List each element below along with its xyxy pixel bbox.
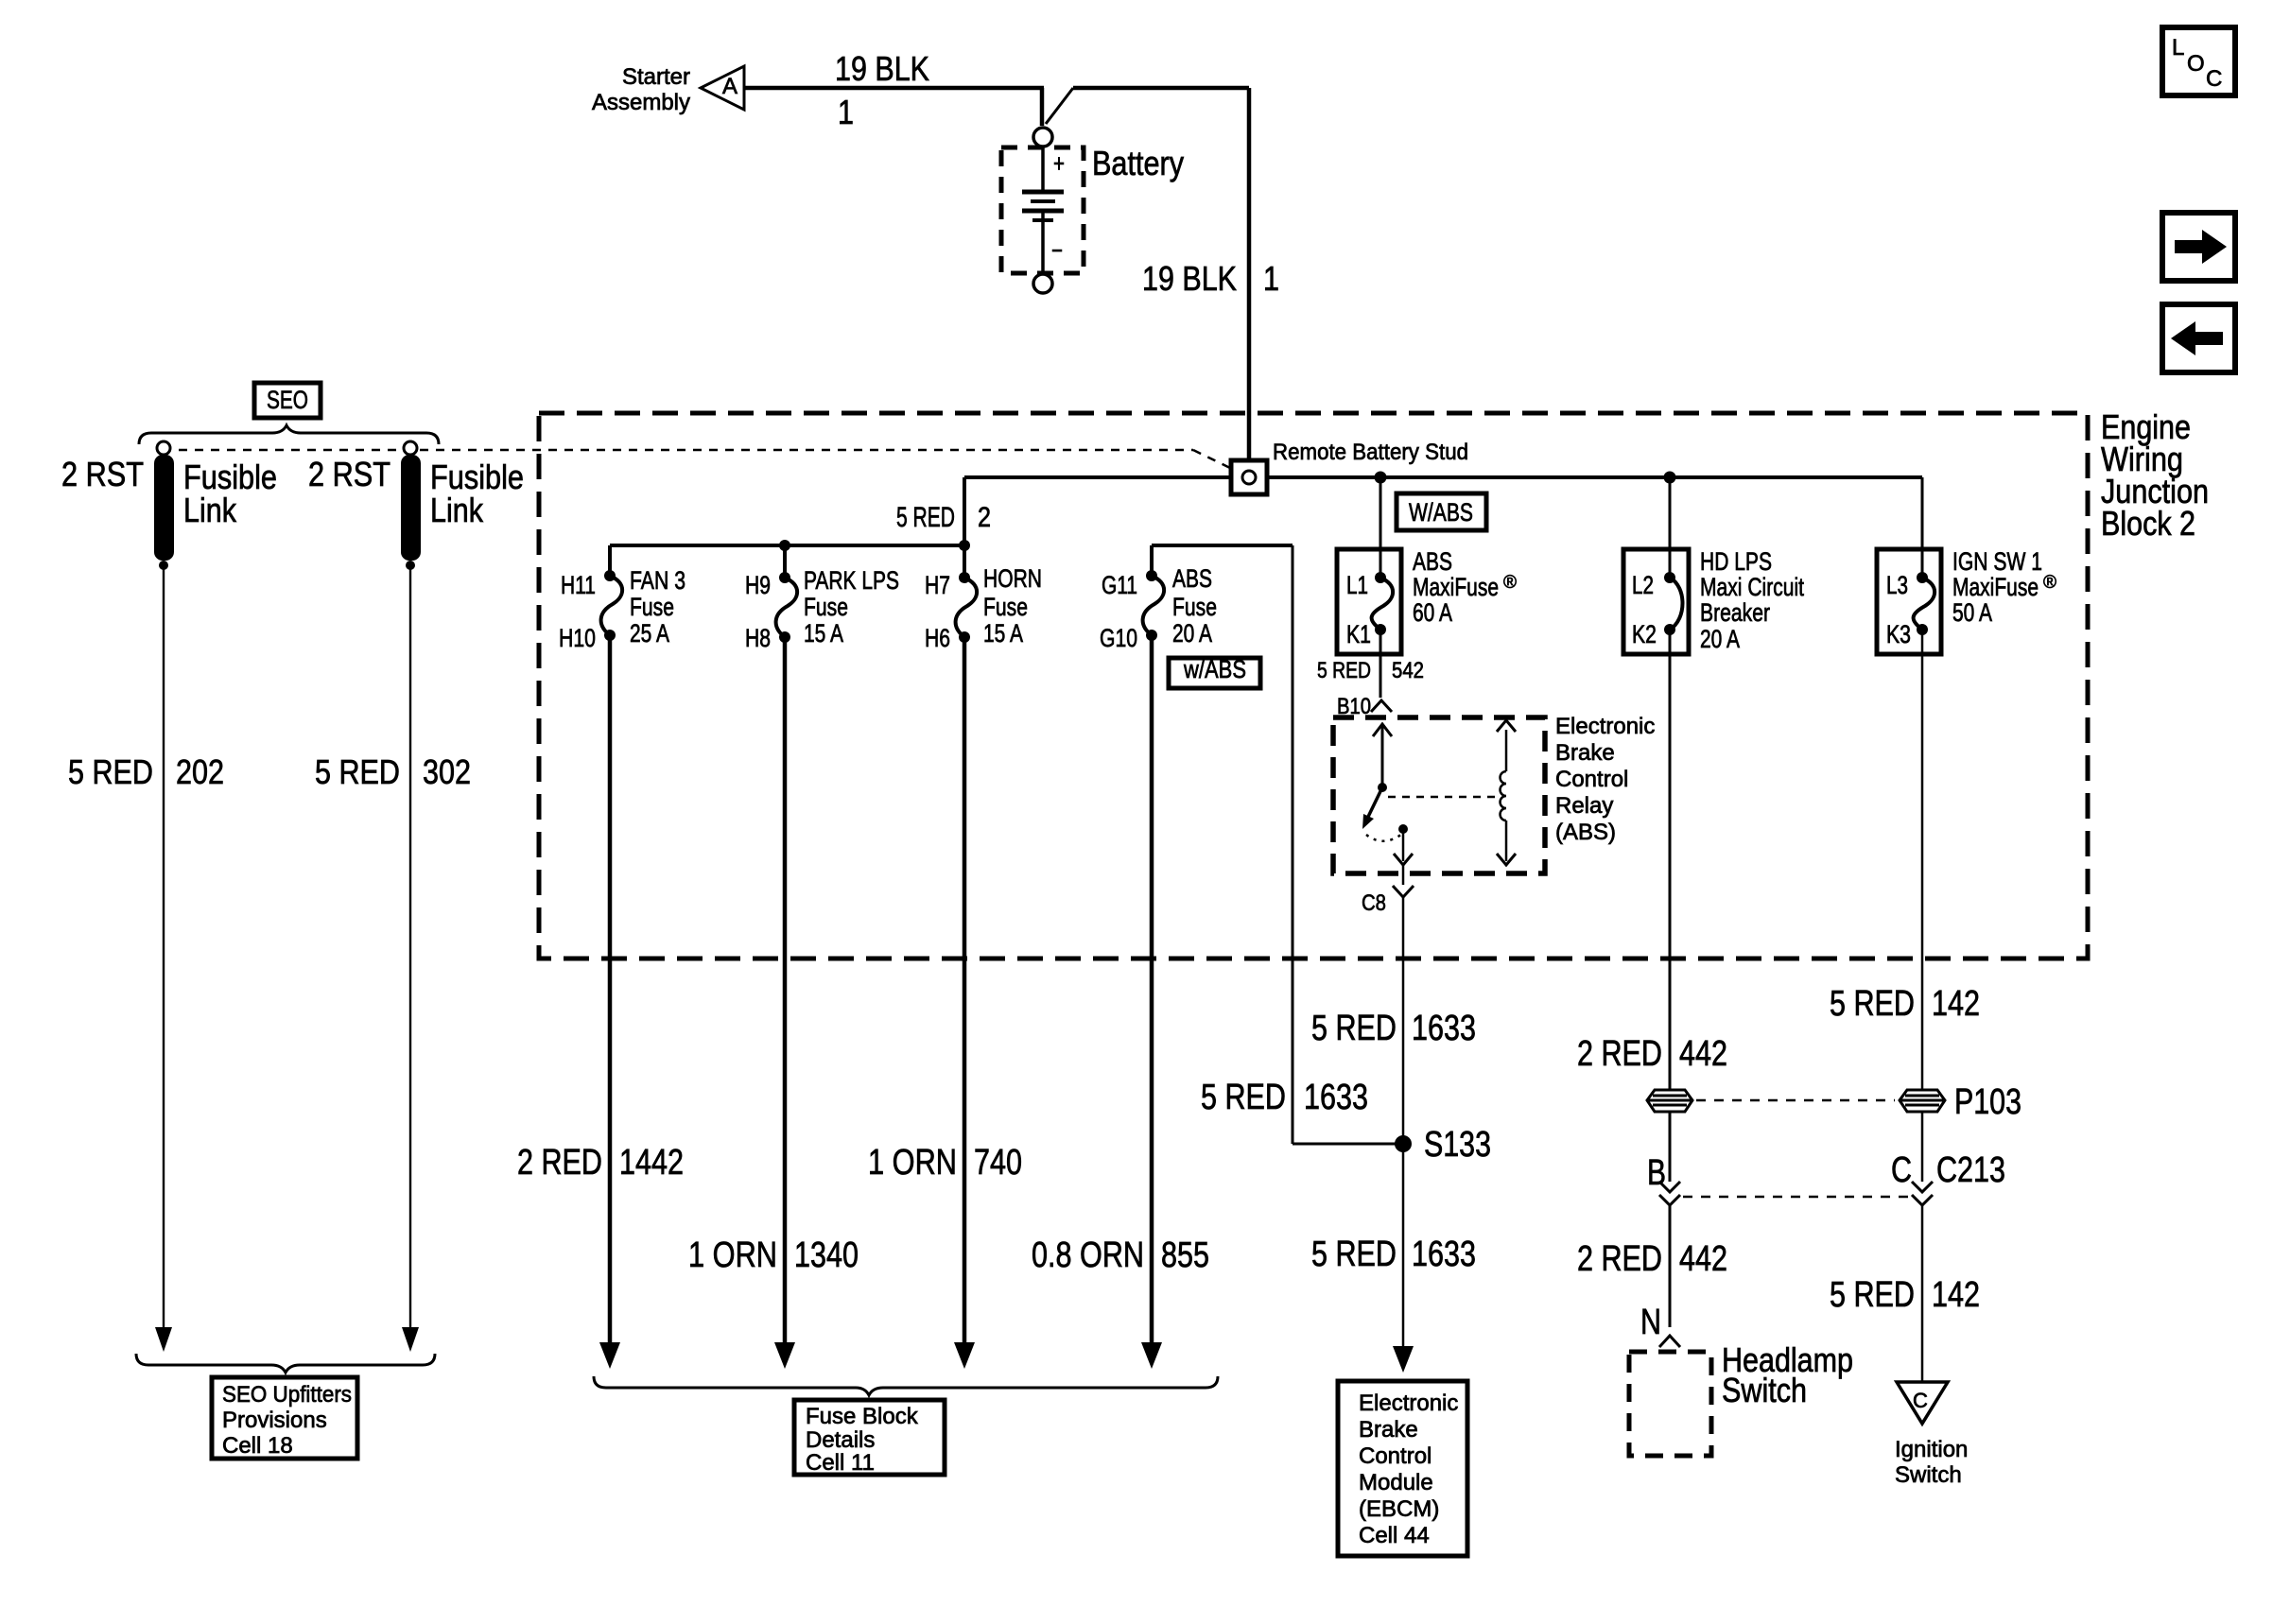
svg-text:542: 542 — [1392, 658, 1424, 683]
relay box Electronic Brake Control Relay (ABS) — [1333, 717, 1545, 873]
node junction HD LPS feed — [1664, 472, 1676, 484]
wire 5 RED 2 drop — [963, 477, 966, 545]
svg-text:Starter: Starter — [622, 64, 690, 90]
label Engine Wiring Junction Block 2 — [2101, 407, 2209, 543]
fuse F1 FAN 3 — [601, 570, 623, 641]
svg-text:50 A: 50 A — [1952, 598, 1992, 627]
svg-text:5 RED: 5 RED — [896, 502, 955, 533]
label HORN Fuse 15 A — [983, 564, 1042, 648]
svg-text:C: C — [1891, 1150, 1912, 1190]
svg-text:HD LPS: HD LPS — [1700, 547, 1772, 576]
svg-text:1633: 1633 — [1412, 1235, 1476, 1274]
label 19 BLK 1 (top) — [835, 49, 929, 131]
icon arrow right box — [2162, 213, 2235, 281]
label 2 RED 1442 — [517, 1143, 684, 1183]
label H9 H8 — [745, 571, 771, 652]
label IGN SW 1 MaxiFuse 50 A — [1952, 547, 2056, 627]
svg-text:L: L — [2172, 35, 2184, 60]
relay switch blade — [1362, 783, 1387, 829]
wire diagonal battery tap — [1046, 88, 1073, 124]
connector pass-through (left) — [1647, 1090, 1692, 1112]
box Headlamp Switch dashed — [1629, 1352, 1711, 1456]
connector A triangle (Starter Assembly) — [701, 66, 744, 110]
wire 2 RED 1442 — [608, 635, 613, 1344]
svg-text:1633: 1633 — [1412, 1009, 1476, 1048]
wire H11 riser — [608, 545, 612, 576]
label 5 RED 542 — [1317, 658, 1424, 683]
svg-text:L2: L2 — [1632, 571, 1654, 599]
wire H9 riser — [783, 545, 787, 578]
label 5 RED 1633 (upper) — [1311, 1009, 1476, 1048]
label 5 RED 202 — [68, 752, 224, 791]
svg-text:+: + — [1053, 149, 1065, 178]
svg-text:20 A: 20 A — [1172, 619, 1212, 648]
svg-text:2 RST: 2 RST — [308, 455, 390, 493]
svg-text:Cell 11: Cell 11 — [806, 1450, 875, 1476]
label ABS MaxiFuse 60 A — [1413, 547, 1517, 627]
svg-text:740: 740 — [974, 1143, 1022, 1183]
remote battery stud — [1231, 460, 1267, 494]
svg-text:5 RED: 5 RED — [1830, 1275, 1915, 1315]
relay input arrow (30) — [1373, 724, 1392, 787]
svg-text:Remote Battery Stud: Remote Battery Stud — [1273, 440, 1468, 465]
svg-text:Details: Details — [806, 1427, 875, 1453]
svg-text:442: 442 — [1679, 1239, 1727, 1279]
svg-text:(EBCM): (EBCM) — [1359, 1496, 1439, 1522]
wire to C213 B — [1669, 1111, 1672, 1182]
svg-text:L3: L3 — [1886, 571, 1908, 599]
wire starter to battery — [744, 86, 1044, 91]
svg-text:19 BLK: 19 BLK — [835, 49, 929, 88]
svg-text:A: A — [722, 74, 737, 99]
svg-text:5 RED: 5 RED — [1317, 658, 1371, 683]
svg-text:HORN: HORN — [983, 564, 1042, 593]
wire 5 RED 302 — [409, 565, 411, 1327]
dashed tie C213 — [1683, 1196, 1908, 1199]
label H7 H6 — [925, 571, 950, 652]
svg-text:H8: H8 — [745, 624, 771, 652]
SEO underbrace — [136, 1354, 435, 1373]
node bus/H9 — [779, 540, 790, 551]
svg-text:H6: H6 — [925, 624, 950, 652]
label G11 G10 — [1100, 571, 1137, 652]
svg-text:G10: G10 — [1100, 624, 1137, 652]
label 5 RED 142 (upper) — [1830, 984, 1980, 1024]
svg-text:15 A: 15 A — [804, 619, 843, 648]
svg-text:Switch: Switch — [1895, 1462, 1962, 1488]
svg-text:Link: Link — [183, 491, 237, 529]
svg-text:5 RED: 5 RED — [68, 752, 153, 791]
label 5 RED 142 (lower) — [1830, 1275, 1980, 1315]
label 1 ORN 1340 — [688, 1235, 859, 1275]
fuse F3 HORN — [956, 572, 978, 643]
SEO callout box — [254, 383, 321, 418]
svg-text:N: N — [1640, 1303, 1661, 1342]
svg-text:Fuse: Fuse — [804, 593, 848, 621]
dashed tie between connectors — [1696, 1099, 1895, 1102]
fuse F2 PARK LPS — [776, 572, 798, 643]
svg-text:IGN SW 1: IGN SW 1 — [1952, 547, 2042, 576]
arrow end 855 — [1141, 1342, 1162, 1369]
svg-text:Switch: Switch — [1722, 1371, 1807, 1409]
wire IGN SW drop from bus — [1921, 477, 1924, 578]
connector P103 — [1900, 1090, 1945, 1112]
label 5 RED 1633 (left) — [1201, 1078, 1368, 1117]
node bus/H7 — [959, 540, 970, 551]
label C C213 — [1891, 1150, 2005, 1190]
svg-text:1340: 1340 — [794, 1235, 859, 1275]
svg-text:855: 855 — [1161, 1235, 1209, 1275]
svg-text:S133: S133 — [1424, 1125, 1491, 1165]
label 19 BLK 1 (vertical wire) — [1142, 259, 1279, 298]
wire 2 RED 442 upper — [1669, 630, 1672, 1091]
arrow end 202 — [155, 1327, 172, 1352]
svg-text:Brake: Brake — [1359, 1417, 1418, 1443]
connector C213 C chevrons — [1912, 1182, 1933, 1205]
svg-text:302: 302 — [423, 752, 471, 791]
icon arrow left box — [2162, 304, 2235, 372]
svg-text:Relay: Relay — [1555, 793, 1613, 819]
breaker HD LPS L2/K2 — [1623, 549, 1689, 654]
svg-text:L1: L1 — [1346, 571, 1368, 599]
label 2 RED 442 (upper) — [1577, 1034, 1727, 1074]
svg-text:®: ® — [2043, 573, 2056, 593]
svg-text:w/ABS: w/ABS — [1183, 655, 1246, 683]
label Fusible Link (1) — [183, 458, 277, 529]
wire HD LPS drop from bus — [1669, 477, 1672, 578]
svg-text:Electronic: Electronic — [1359, 1391, 1458, 1416]
arrow end 1340 — [774, 1342, 795, 1369]
icon LOC box — [2162, 27, 2235, 95]
fuse ABS MaxiFuse L1/K1 — [1337, 549, 1401, 654]
svg-text:Provisions: Provisions — [222, 1408, 327, 1433]
label Starter Assembly — [592, 64, 690, 115]
svg-text:Link: Link — [430, 491, 484, 529]
relay dashed actuator link — [1388, 796, 1501, 799]
svg-text:202: 202 — [176, 752, 224, 791]
svg-text:25 A: 25 A — [630, 619, 669, 648]
svg-text:1 ORN: 1 ORN — [688, 1235, 777, 1275]
fuse block underbrace — [594, 1376, 1218, 1395]
svg-text:5 RED: 5 RED — [315, 752, 400, 791]
wire bus left of stud — [964, 475, 1231, 479]
svg-text:Control: Control — [1359, 1443, 1431, 1469]
wire ABS maxifuse feed drop — [1379, 477, 1382, 578]
svg-text:SEO: SEO — [267, 386, 308, 414]
fusible link FL1 — [154, 441, 174, 570]
wire bus right of stud — [1267, 475, 1922, 479]
svg-text:20 A: 20 A — [1700, 625, 1740, 653]
wire battery drop — [1040, 88, 1045, 126]
svg-text:H7: H7 — [925, 571, 950, 599]
svg-text:19 BLK: 19 BLK — [1142, 259, 1237, 298]
svg-text:ABS: ABS — [1413, 547, 1452, 576]
wire 5 RED 202 — [163, 565, 165, 1327]
label PARK LPS Fuse 15 A — [804, 566, 899, 648]
SEO overbrace — [139, 425, 439, 444]
connector C8 chevron — [1393, 886, 1414, 897]
svg-text:Cell 44: Cell 44 — [1359, 1523, 1430, 1548]
label 0.8 ORN 855 — [1032, 1235, 1209, 1275]
svg-text:W/ABS: W/ABS — [1409, 498, 1473, 527]
wire maxifuse to B10 — [1379, 630, 1382, 698]
arrow end 740 — [954, 1342, 975, 1369]
svg-text:Module: Module — [1359, 1470, 1433, 1495]
label Fusible Link (2) — [430, 458, 524, 529]
label 5 RED 2 — [896, 502, 991, 533]
label ABS Fuse 20 A — [1172, 564, 1217, 648]
svg-text:2 RST: 2 RST — [61, 455, 144, 493]
connector C213 B chevrons — [1659, 1182, 1680, 1205]
wire 0.8 ORN 855 — [1150, 635, 1154, 1344]
svg-text:H9: H9 — [745, 571, 771, 599]
relay dotted throw arc — [1366, 834, 1402, 841]
svg-text:2 RED: 2 RED — [517, 1143, 602, 1183]
svg-text:2: 2 — [978, 502, 991, 533]
label 1 ORN 740 — [868, 1143, 1022, 1183]
svg-text:C: C — [2206, 66, 2222, 92]
svg-text:K3: K3 — [1886, 620, 1911, 648]
svg-text:0.8 ORN: 0.8 ORN — [1032, 1235, 1144, 1275]
svg-text:5 RED: 5 RED — [1830, 984, 1915, 1024]
box SEO Upfitters Provisions Cell 18 — [212, 1377, 357, 1459]
wire battery to corner — [1073, 86, 1249, 91]
arrow end 1442 — [599, 1342, 620, 1369]
wire 2 RED 442 lower — [1669, 1203, 1672, 1327]
label 5 RED 302 — [315, 752, 471, 791]
fuse F4 ABS — [1143, 570, 1165, 641]
wire C8 to EBCM — [1402, 865, 1405, 885]
svg-text:G11: G11 — [1102, 571, 1137, 599]
relay output wire + arrow — [1394, 829, 1413, 865]
svg-text:PARK LPS: PARK LPS — [804, 566, 899, 595]
label w/ABS box — [1169, 655, 1260, 688]
svg-text:Block 2: Block 2 — [2101, 504, 2195, 543]
svg-text:Fuse: Fuse — [630, 593, 674, 621]
label Headlamp Switch — [1722, 1340, 1853, 1409]
svg-text:C8: C8 — [1362, 890, 1386, 916]
svg-text:Fuse: Fuse — [1172, 593, 1217, 621]
svg-text:H10: H10 — [559, 624, 596, 652]
svg-text:K2: K2 — [1632, 620, 1657, 648]
svg-text:15 A: 15 A — [983, 619, 1023, 648]
svg-text:C: C — [1913, 1389, 1928, 1412]
svg-text:Maxi Circuit: Maxi Circuit — [1700, 573, 1804, 601]
svg-text:H11: H11 — [561, 571, 596, 599]
wire 1 ORN 740 — [963, 637, 967, 1344]
Engine Wiring Junction Block 2 dashed border — [539, 413, 2088, 959]
svg-text:Control: Control — [1555, 767, 1628, 792]
svg-text:2 RED: 2 RED — [1577, 1239, 1662, 1279]
arrow end 302 — [402, 1327, 419, 1352]
wire ABS fuse feed from S133 — [1152, 545, 1397, 1144]
wire 5 RED 142 upper — [1921, 630, 1924, 1091]
svg-text:60 A: 60 A — [1413, 598, 1452, 627]
svg-text:Assembly: Assembly — [592, 90, 690, 115]
label FAN 3 Fuse 25 A — [630, 566, 685, 648]
wire 5 RED 142 lower — [1921, 1203, 1924, 1382]
svg-text:142: 142 — [1932, 1275, 1980, 1315]
svg-text:442: 442 — [1679, 1034, 1727, 1074]
label Electronic Brake Control Relay (ABS) — [1555, 714, 1655, 845]
svg-text:Breaker: Breaker — [1700, 598, 1770, 627]
node junction ABS maxifuse feed — [1375, 472, 1387, 484]
svg-text:C213: C213 — [1936, 1150, 2005, 1190]
svg-text:(ABS): (ABS) — [1555, 820, 1616, 845]
svg-text:MaxiFuse: MaxiFuse — [1952, 573, 2039, 601]
node S133 — [1395, 1135, 1412, 1152]
box Electronic Brake Control Module (EBCM) Cell 44 — [1338, 1381, 1467, 1556]
wire to C213 C — [1921, 1111, 1924, 1182]
svg-text:®: ® — [1503, 573, 1517, 593]
label HD LPS Maxi Circuit Breaker 20 A — [1700, 547, 1804, 653]
svg-text:2 RED: 2 RED — [1577, 1034, 1662, 1074]
svg-text:K1: K1 — [1346, 620, 1371, 648]
battery B1 — [1001, 128, 1084, 293]
wire 19 BLK 1 vertical — [1247, 88, 1252, 462]
connector N chevron — [1659, 1336, 1680, 1347]
svg-text:ABS: ABS — [1172, 564, 1212, 593]
relay coil — [1497, 720, 1516, 865]
svg-text:Fuse Block: Fuse Block — [806, 1404, 919, 1429]
svg-text:5 RED: 5 RED — [1311, 1235, 1397, 1274]
label Ignition Switch — [1895, 1437, 1968, 1488]
svg-text:−: − — [1051, 236, 1063, 265]
svg-text:Fuse: Fuse — [983, 593, 1028, 621]
svg-text:Cell 18: Cell 18 — [222, 1433, 293, 1459]
arrow into EBCM — [1393, 1346, 1414, 1373]
wire fuse bus — [610, 544, 964, 547]
relay contact dot — [1398, 824, 1408, 834]
fusible link FL2 — [401, 441, 421, 570]
connector B10 chevron — [1371, 700, 1392, 712]
fuse IGN SW 1 MaxiFuse L3/K3 — [1877, 549, 1941, 654]
svg-text:O: O — [2187, 51, 2205, 77]
svg-text:MaxiFuse: MaxiFuse — [1413, 573, 1499, 601]
svg-text:P103: P103 — [1954, 1082, 2021, 1122]
svg-text:Electronic: Electronic — [1555, 714, 1655, 739]
svg-text:5 RED: 5 RED — [1201, 1078, 1286, 1117]
label W/ABS box — [1397, 493, 1486, 530]
wire H7 riser — [963, 545, 966, 578]
svg-text:1633: 1633 — [1304, 1078, 1368, 1117]
wire 1 ORN 1340 — [783, 637, 788, 1344]
svg-text:Ignition: Ignition — [1895, 1437, 1968, 1462]
label H11 H10 — [559, 571, 596, 652]
svg-text:1: 1 — [838, 93, 854, 131]
label 2 RED 442 (lower) — [1577, 1239, 1727, 1279]
svg-text:FAN 3: FAN 3 — [630, 566, 685, 595]
box Fuse Block Details Cell 11 — [794, 1400, 945, 1476]
svg-text:1 ORN: 1 ORN — [868, 1143, 957, 1183]
svg-text:Brake: Brake — [1555, 740, 1615, 766]
svg-text:142: 142 — [1932, 984, 1980, 1024]
svg-text:1442: 1442 — [619, 1143, 684, 1183]
svg-text:SEO Upfitters: SEO Upfitters — [222, 1382, 352, 1408]
svg-text:Battery: Battery — [1092, 144, 1184, 182]
label 5 RED 1633 (lower) — [1311, 1235, 1476, 1274]
SEO dashed feed wire — [163, 450, 1236, 471]
svg-text:5 RED: 5 RED — [1311, 1009, 1397, 1048]
connector C triangle (Ignition Switch) — [1897, 1382, 1948, 1424]
svg-text:1: 1 — [1263, 259, 1279, 298]
